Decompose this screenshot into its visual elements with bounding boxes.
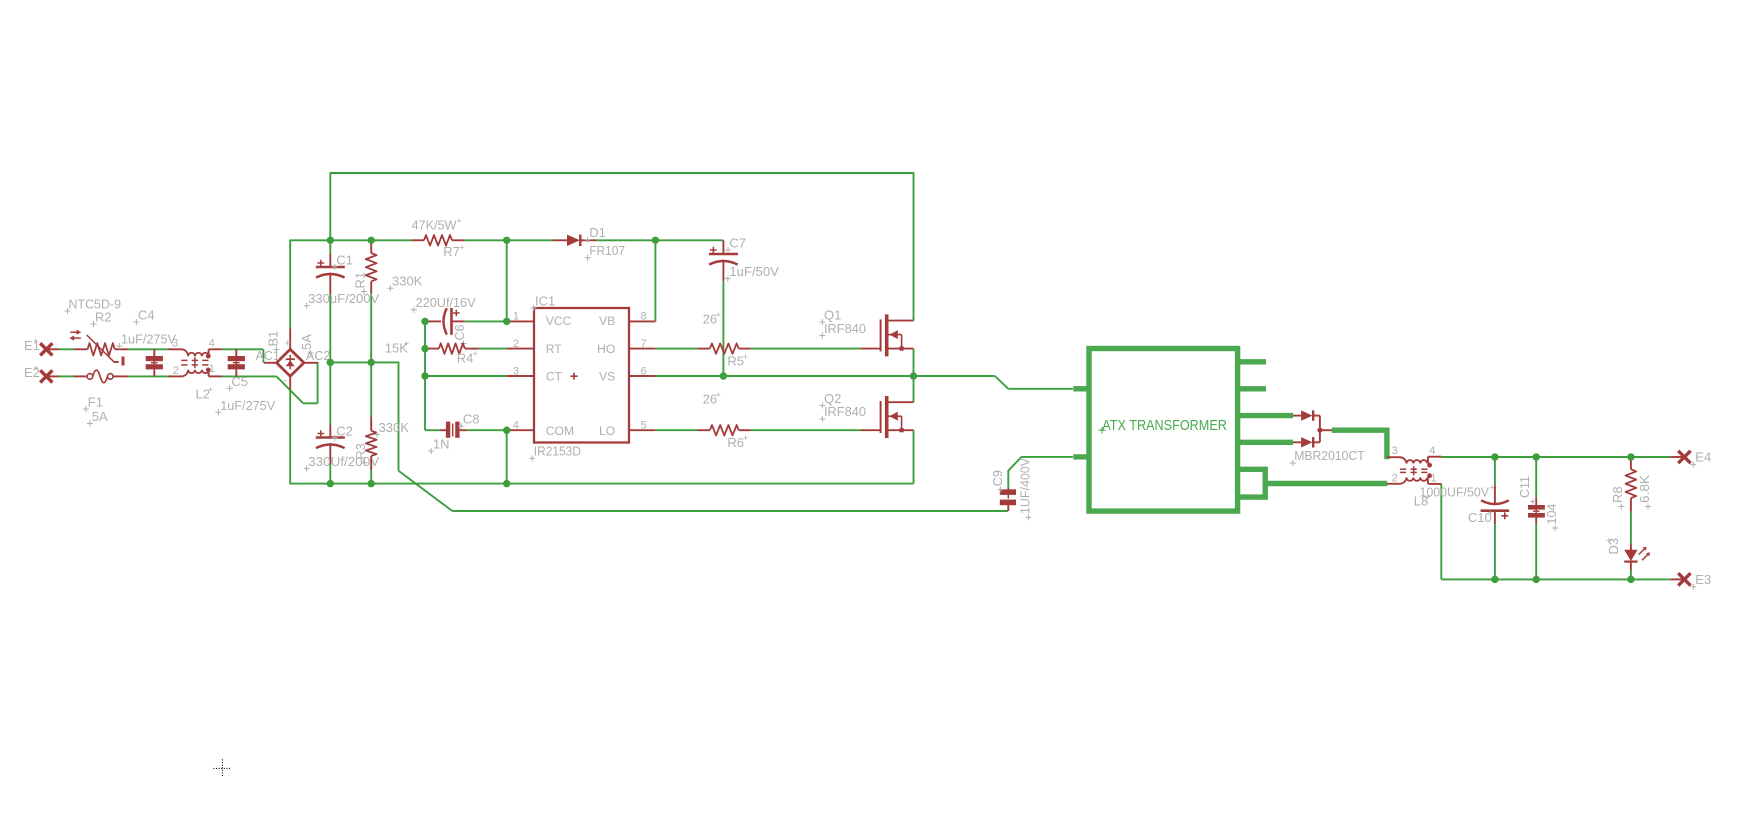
svg-text:R3: R3 xyxy=(353,443,368,460)
wire: secondary +12V rail xyxy=(1441,456,1670,458)
svg-text:C4: C4 xyxy=(138,308,155,323)
IC1 pin 7 xyxy=(629,338,655,350)
svg-text:1uF/275V: 1uF/275V xyxy=(121,331,176,346)
svg-text:IC1: IC1 xyxy=(535,293,555,308)
svg-text:VCC: VCC xyxy=(546,314,572,328)
svg-text:RT: RT xyxy=(546,342,563,356)
IC1 pin 6 xyxy=(629,366,655,378)
svg-text:B1: B1 xyxy=(266,331,281,347)
svg-text:5A: 5A xyxy=(92,409,108,424)
svg-text:C9: C9 xyxy=(991,470,1005,486)
svg-text:6: 6 xyxy=(641,366,647,378)
wire: bridge plus to top bus xyxy=(289,240,291,329)
wire: Q1 drain / Q2 source verticals xyxy=(913,376,915,484)
svg-text:R4: R4 xyxy=(457,351,474,366)
wire: negative bottom bus xyxy=(289,390,913,484)
wire: VS net to transformer xyxy=(655,349,1073,389)
svg-text:330uF/200V: 330uF/200V xyxy=(308,291,379,306)
svg-text:C8: C8 xyxy=(463,411,480,426)
wire: C7 column xyxy=(722,281,724,376)
capacitor C9 1UF/400V xyxy=(991,457,1033,520)
svg-text:104: 104 xyxy=(1545,504,1559,525)
svg-text:C6: C6 xyxy=(453,324,467,340)
op-amp/driver IC1 IR2153D xyxy=(529,293,629,461)
svg-text:IR2153D: IR2153D xyxy=(534,443,581,458)
svg-text:C5: C5 xyxy=(231,374,248,389)
wire: +310V top bus xyxy=(290,239,724,241)
svg-text:AC1: AC1 xyxy=(256,349,280,363)
capacitor C2 330Uf/200V xyxy=(304,423,380,471)
svg-text:+: + xyxy=(716,390,721,400)
svg-text:1uF/275V: 1uF/275V xyxy=(220,398,275,413)
svg-text:+: + xyxy=(33,363,38,373)
bridge rectifier B1 5A xyxy=(256,328,331,389)
svg-text:F1: F1 xyxy=(88,394,103,409)
svg-text:-: - xyxy=(283,374,287,386)
svg-text:C7: C7 xyxy=(729,235,746,250)
svg-text:2: 2 xyxy=(513,338,519,350)
wire: transformer secondary center tap (thick) xyxy=(1265,481,1387,486)
svg-text:1N: 1N xyxy=(433,436,450,451)
svg-text:R1: R1 xyxy=(353,272,368,289)
svg-text:330K: 330K xyxy=(379,420,410,435)
IC1 pin 5 xyxy=(629,420,655,432)
svg-text:AC2: AC2 xyxy=(306,349,330,363)
resistor R3 330K xyxy=(353,417,409,470)
svg-text:+: + xyxy=(457,216,462,226)
wire: R1/R3 column xyxy=(370,294,372,484)
svg-text:220Uf/16V: 220Uf/16V xyxy=(416,295,476,310)
LED D3 xyxy=(1604,538,1650,570)
terminal E1 xyxy=(24,336,59,355)
svg-text:7: 7 xyxy=(641,338,647,350)
svg-text:4: 4 xyxy=(513,420,519,432)
svg-text:+: + xyxy=(33,336,38,346)
wire: divider midpoint to C9 xyxy=(399,362,1008,511)
svg-text:C1: C1 xyxy=(336,252,353,267)
IC1 pin 4 xyxy=(507,420,534,432)
svg-text:HO: HO xyxy=(597,342,615,356)
svg-text:FR107: FR107 xyxy=(589,243,625,258)
svg-text:C2: C2 xyxy=(336,423,353,438)
resistor R5 26 xyxy=(698,310,751,369)
svg-text:R7: R7 xyxy=(443,244,460,259)
svg-text:ATX TRANSFORMER: ATX TRANSFORMER xyxy=(1102,417,1227,434)
svg-text:MBR2010CT: MBR2010CT xyxy=(1294,448,1365,463)
svg-text:+: + xyxy=(473,349,478,359)
svg-text:47K/5W: 47K/5W xyxy=(412,218,458,233)
svg-text:D1: D1 xyxy=(589,225,606,240)
resistor R7 47K/5W xyxy=(412,216,465,259)
wire: C10 column xyxy=(1494,457,1496,579)
svg-text:5A: 5A xyxy=(299,334,314,350)
wire: E1 live rail xyxy=(59,349,263,363)
svg-text:C11: C11 xyxy=(1518,476,1532,498)
svg-text:4: 4 xyxy=(1429,445,1435,457)
transformer T1 ATX TRANSFORMER xyxy=(1073,349,1293,512)
svg-text:R8: R8 xyxy=(1610,486,1625,503)
resistor R8 6.8K xyxy=(1610,460,1652,512)
svg-text:CT: CT xyxy=(546,370,563,384)
common-mode choke L2 xyxy=(168,337,222,401)
terminal E2 xyxy=(24,363,59,382)
svg-text:R5: R5 xyxy=(727,354,744,369)
capacitor C1 330uF/200V xyxy=(304,252,380,309)
capacitor C8 1N xyxy=(428,411,479,454)
terminal E4 xyxy=(1670,450,1711,468)
svg-text:IRF840: IRF840 xyxy=(824,404,866,419)
IC1 pin 2 xyxy=(507,338,534,350)
IC1 pin 1 xyxy=(507,310,534,322)
svg-text:+: + xyxy=(404,339,409,349)
svg-text:LO: LO xyxy=(599,424,615,438)
svg-text:4: 4 xyxy=(209,338,215,350)
transistor Q2 IRF840 xyxy=(819,391,913,438)
svg-text:+: + xyxy=(1604,538,1614,543)
svg-text:VS: VS xyxy=(599,370,615,384)
wire: E2 neutral rail xyxy=(59,362,318,403)
svg-text:1UF/400V: 1UF/400V xyxy=(1019,457,1033,514)
wire: LO gate net xyxy=(655,429,860,431)
svg-text:1000UF/50V: 1000UF/50V xyxy=(1420,484,1490,499)
transistor Q1 IRF840 xyxy=(819,307,913,356)
svg-text:3: 3 xyxy=(172,337,178,349)
resistor R1 330K xyxy=(353,240,423,294)
thermistor R2 NTC5D-9 xyxy=(65,297,128,366)
terminal E3 xyxy=(1670,572,1711,590)
svg-text:R6: R6 xyxy=(727,435,744,450)
svg-text:+: + xyxy=(460,243,465,253)
svg-text:3: 3 xyxy=(513,366,519,378)
capacitor C7 1uF/50V xyxy=(709,235,779,281)
capacitor C6 220Uf/16V xyxy=(411,295,476,347)
svg-text:+: + xyxy=(716,310,721,320)
IC1 pin 8 xyxy=(629,310,655,322)
IC1 pin 3 xyxy=(507,366,534,378)
capacitor C11 104 xyxy=(1518,476,1559,531)
inductor L8 xyxy=(1387,445,1495,509)
resistor R4 15K xyxy=(385,339,479,366)
svg-text:8: 8 xyxy=(641,310,647,322)
wire: C1 column xyxy=(329,240,331,362)
diode D2b MBR2010CT lower xyxy=(1290,430,1365,466)
wire: R8/D3 column xyxy=(1630,457,1632,579)
svg-text:2: 2 xyxy=(1392,473,1398,485)
svg-text:1: 1 xyxy=(513,310,519,322)
capacitor C4 1uF/275V xyxy=(116,308,176,377)
svg-text:3: 3 xyxy=(1392,445,1398,457)
svg-text:+: + xyxy=(743,433,748,443)
svg-text:6.8K: 6.8K xyxy=(1637,475,1652,503)
wire: VB net xyxy=(654,240,656,322)
svg-text:+: + xyxy=(1488,508,1493,518)
fuse F1 5A xyxy=(74,370,128,426)
diode D2a MBR2010CT upper xyxy=(1293,410,1320,430)
wire: secondary ground rail xyxy=(1441,484,1670,580)
wire: outer top loop xyxy=(330,172,913,320)
svg-text:2: 2 xyxy=(173,365,179,377)
diode D1 FR107 xyxy=(553,225,625,261)
wire: mid bus (cap divider) xyxy=(330,361,398,363)
wire: C11 column xyxy=(1535,457,1537,579)
capacitor C5 1uF/275V xyxy=(215,349,275,415)
svg-text:1: 1 xyxy=(209,363,215,375)
svg-text:1: 1 xyxy=(1431,473,1437,485)
capacitor C10 1000UF/50V xyxy=(1468,485,1509,525)
wire: RT net xyxy=(479,348,507,350)
node: rectifier cathode junction xyxy=(1317,428,1322,433)
svg-text:R2: R2 xyxy=(95,310,112,325)
wire: CT net xyxy=(425,375,507,377)
resistor R6 26 xyxy=(698,390,751,450)
wire: C2 column xyxy=(329,362,331,483)
wire: COM net xyxy=(425,430,507,483)
wire: rectifier output to L8 (thick) xyxy=(1332,428,1387,460)
svg-text:VB: VB xyxy=(599,314,615,328)
svg-text:COM: COM xyxy=(546,424,574,438)
svg-text:330Uf/200V: 330Uf/200V xyxy=(308,454,379,469)
svg-text:E4: E4 xyxy=(1695,450,1711,465)
svg-text:+: + xyxy=(743,352,748,362)
svg-text:+: + xyxy=(208,384,213,394)
svg-text:E3: E3 xyxy=(1695,572,1711,587)
svg-text:1uF/50V: 1uF/50V xyxy=(729,264,779,279)
wire: C9 to transformer pin2 xyxy=(1008,457,1073,489)
wire: HO gate net xyxy=(655,348,860,350)
svg-text:330K: 330K xyxy=(392,274,423,289)
svg-text:IRF840: IRF840 xyxy=(824,321,866,336)
svg-text:+: + xyxy=(285,338,291,350)
sheet origin marker xyxy=(213,759,231,777)
svg-text:5: 5 xyxy=(641,420,647,432)
wire: VCC net xyxy=(425,240,507,430)
node junctions xyxy=(327,237,1635,584)
